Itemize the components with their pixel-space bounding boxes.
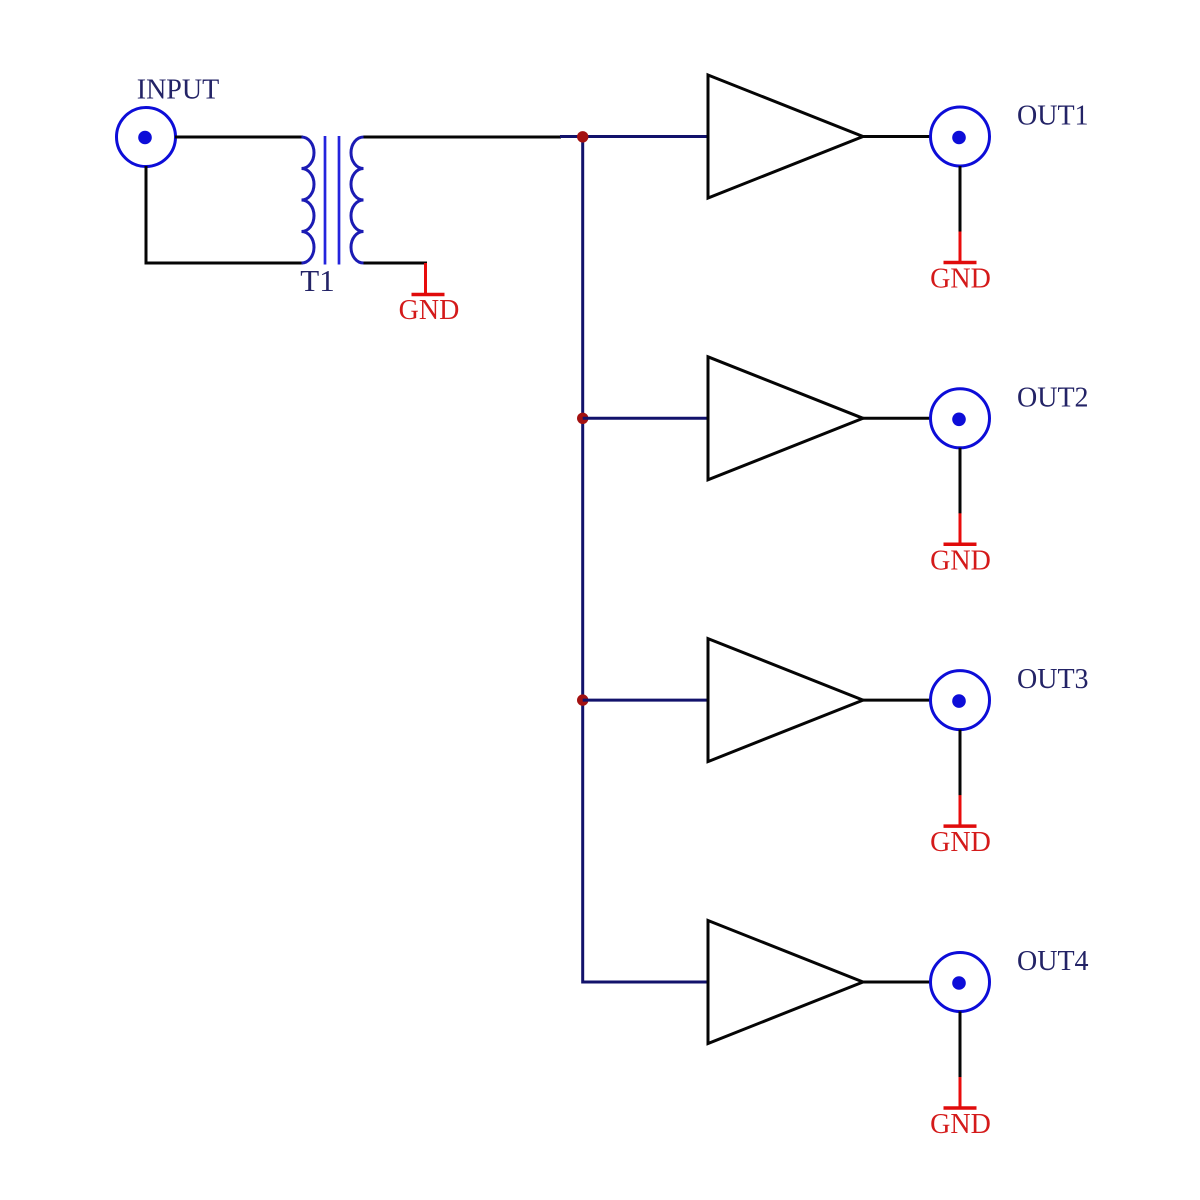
- wire bus to amp3: [583, 699, 708, 702]
- ground GND out2: [944, 513, 977, 544]
- connector OUT4: [931, 953, 990, 1012]
- wire out2 gnd: [959, 448, 962, 514]
- svg-text:GND: GND: [930, 264, 991, 295]
- connector OUT1: [931, 107, 990, 166]
- svg-text:GND: GND: [930, 1109, 991, 1140]
- wire transformer secondary top: [364, 136, 562, 139]
- svg-text:GND: GND: [930, 545, 991, 576]
- wire out4 gnd: [959, 1012, 962, 1078]
- wire out1 gnd: [959, 166, 962, 232]
- ground GND out1: [944, 232, 977, 263]
- wire bus to amp2: [583, 417, 708, 420]
- svg-text:OUT1: OUT1: [1017, 101, 1089, 132]
- bus wire vertical: [583, 137, 708, 983]
- wire amp3 out: [863, 699, 931, 702]
- wire amp2 out: [863, 417, 931, 420]
- amplifier A3: [708, 639, 863, 762]
- transformer T1 secondary winding: [351, 137, 364, 263]
- svg-text:INPUT: INPUT: [137, 75, 219, 106]
- amplifier A1: [708, 75, 863, 198]
- ground GND out3: [944, 795, 977, 826]
- transformer T1 core: [325, 136, 339, 265]
- ground GND out4: [944, 1077, 977, 1108]
- svg-text:OUT2: OUT2: [1017, 382, 1089, 413]
- amplifier A2: [708, 357, 863, 480]
- wire input top: [175, 136, 303, 139]
- junction row1: [577, 131, 588, 142]
- junction row2: [577, 413, 588, 424]
- wire amp1 out: [863, 135, 931, 138]
- ground GND transformer: [412, 263, 445, 295]
- wire input bottom loop: [146, 166, 303, 263]
- connector OUT3: [931, 671, 990, 730]
- wire transformer secondary bottom: [364, 262, 428, 265]
- svg-text:OUT3: OUT3: [1017, 664, 1089, 695]
- svg-text:T1: T1: [300, 263, 334, 298]
- wire out3 gnd: [959, 730, 962, 796]
- connector INPUT: [117, 108, 176, 167]
- svg-text:GND: GND: [399, 295, 460, 326]
- amplifier A4: [708, 921, 863, 1044]
- svg-text:OUT4: OUT4: [1017, 946, 1089, 977]
- junction row3: [577, 694, 588, 705]
- connector OUT2: [931, 389, 990, 448]
- transformer T1 primary winding: [302, 137, 315, 263]
- wire amp4 out: [863, 981, 931, 984]
- wire net to bus row1: [560, 135, 708, 138]
- svg-text:GND: GND: [930, 827, 991, 858]
